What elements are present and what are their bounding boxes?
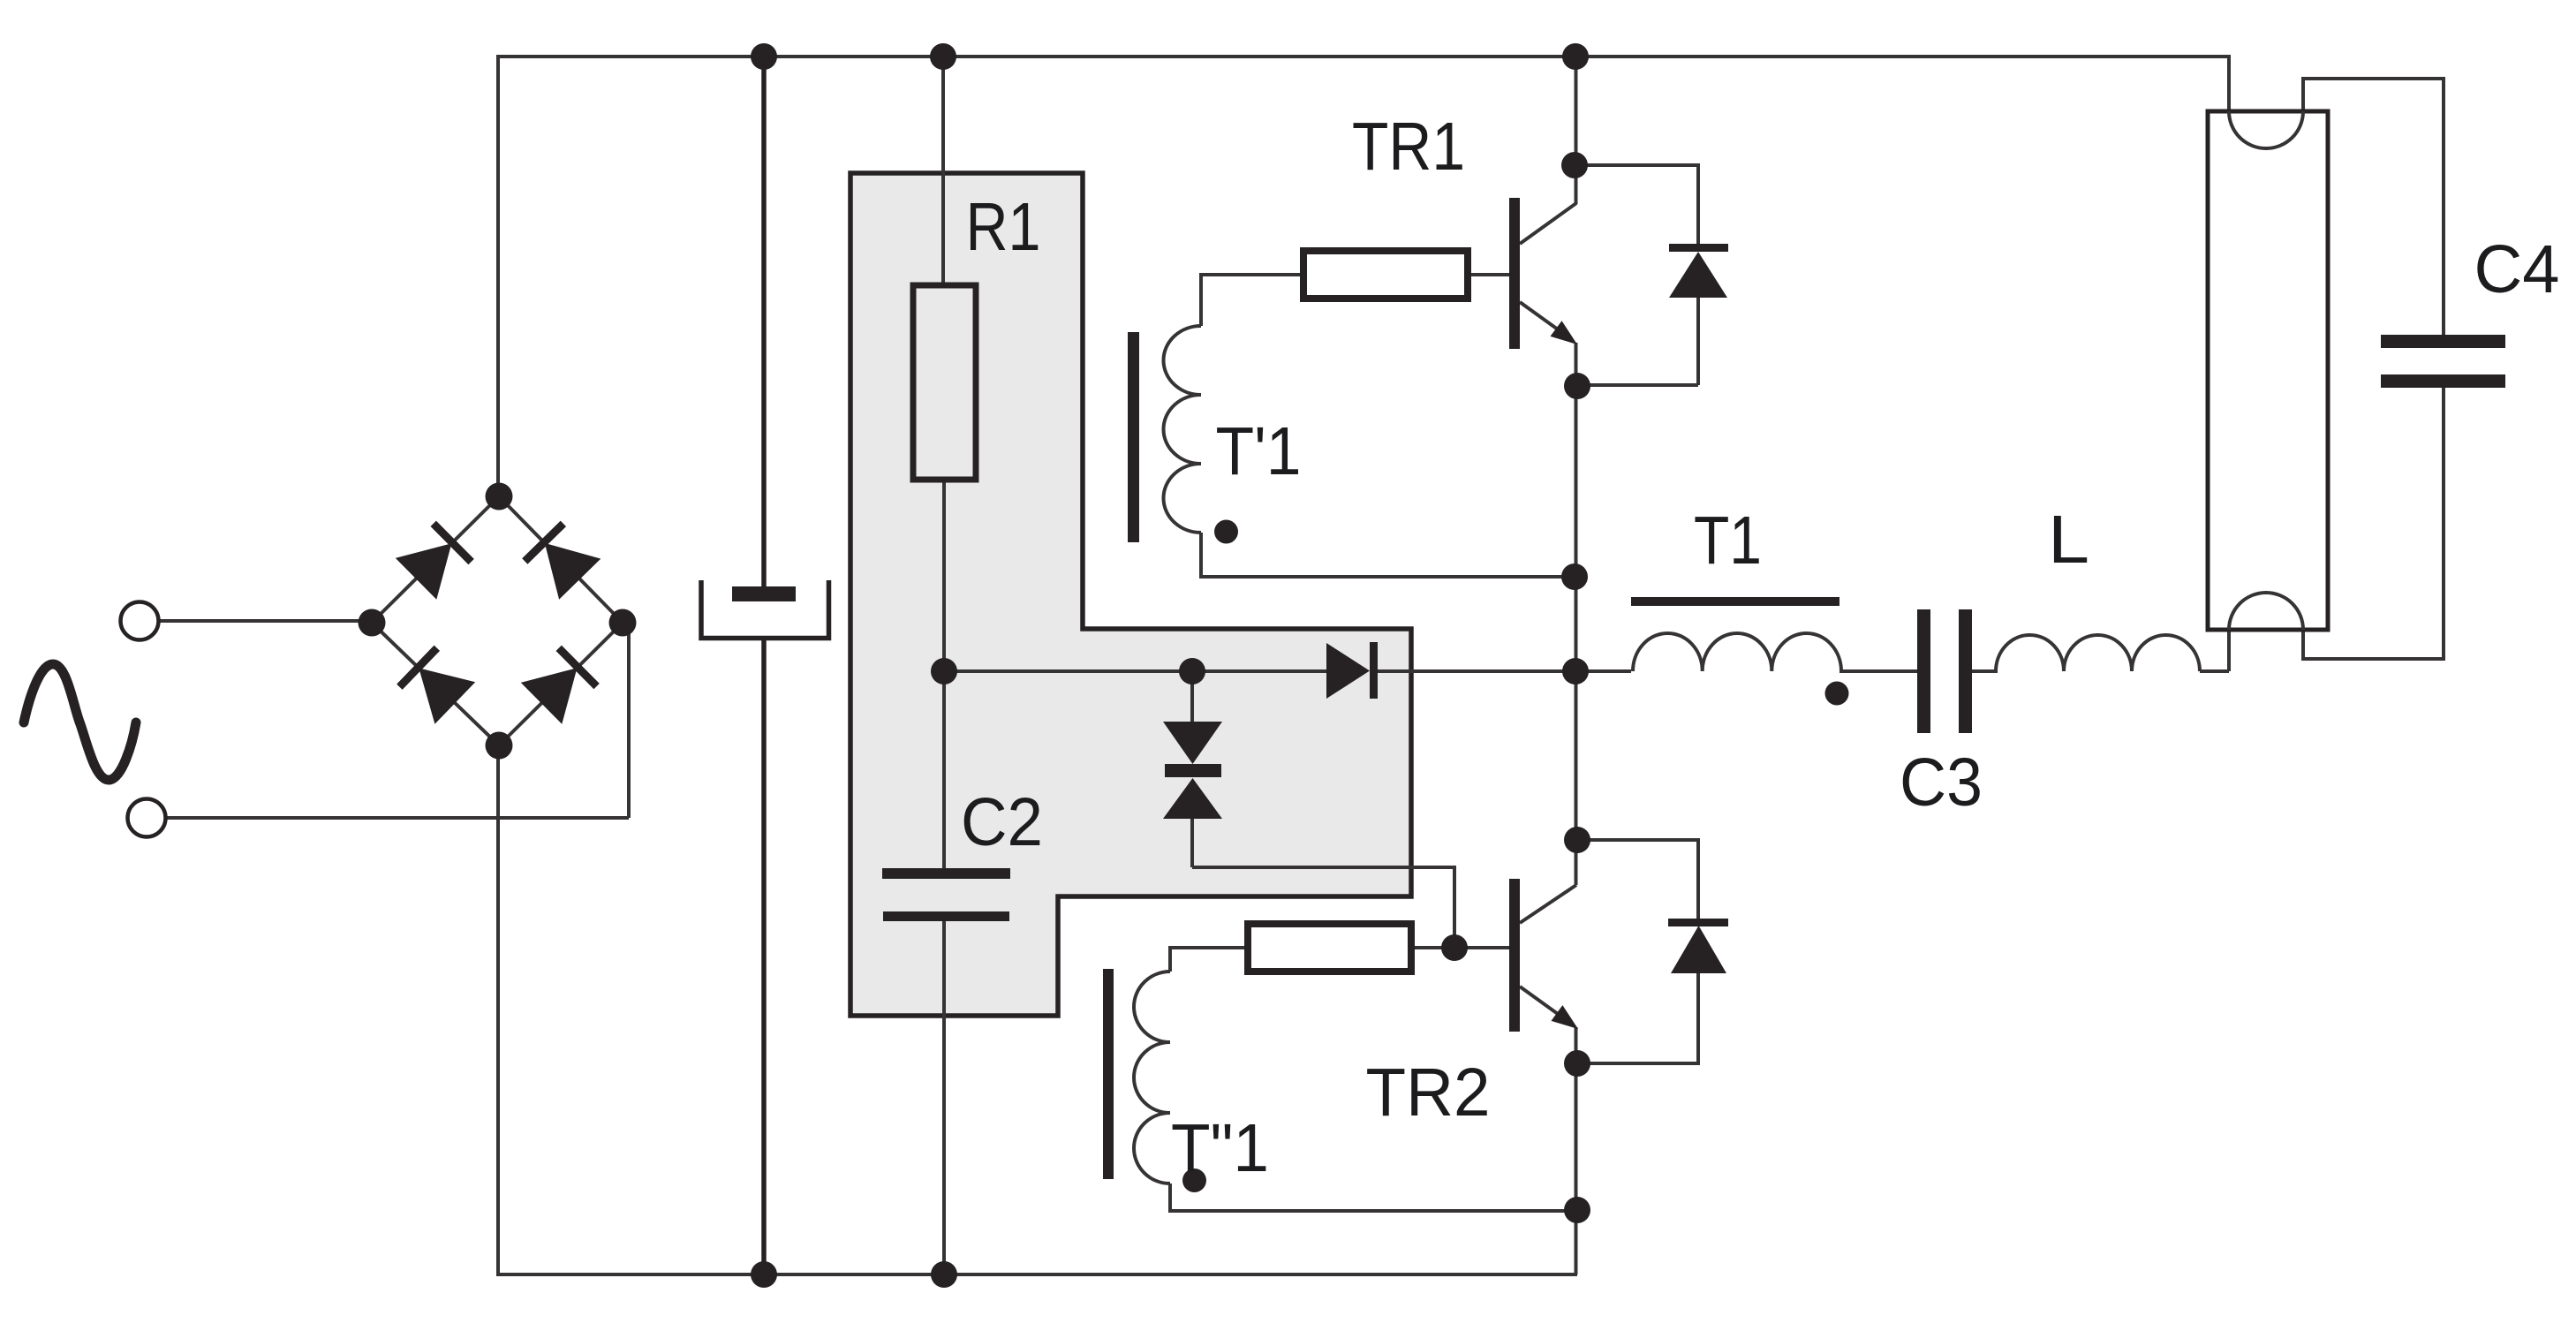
svg-text:TR2: TR2 — [1366, 1055, 1491, 1131]
svg-text:T'1: T'1 — [1216, 413, 1302, 489]
svg-text:R1: R1 — [966, 189, 1041, 265]
svg-text:C2: C2 — [961, 784, 1043, 860]
svg-text:T"1: T"1 — [1171, 1110, 1269, 1186]
svg-text:TR1: TR1 — [1352, 109, 1465, 185]
svg-text:C4: C4 — [2474, 231, 2560, 307]
svg-text:C3: C3 — [1900, 745, 1983, 821]
svg-text:T1: T1 — [1694, 503, 1762, 579]
svg-text:L: L — [2048, 502, 2089, 578]
